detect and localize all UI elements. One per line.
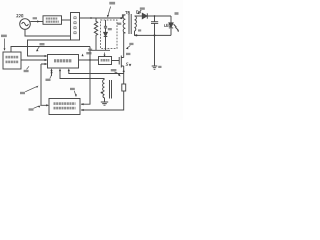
ref 112 leader xyxy=(127,46,130,49)
wire drain to primary xyxy=(124,33,126,58)
output right wire and LED xyxy=(170,16,172,35)
LED xyxy=(169,23,173,28)
wire A2 sampler to PWM xyxy=(21,59,46,61)
snubber label C1 xyxy=(108,28,112,30)
wire vertical gate-sense xyxy=(81,47,90,105)
ref 12 xyxy=(175,12,179,15)
ref 208 xyxy=(20,92,25,94)
ref 206 leader xyxy=(27,66,30,69)
secondary label smudge xyxy=(138,29,141,31)
resistor R1 xyxy=(94,18,97,50)
detector box xyxy=(49,99,80,115)
wire A3 detector loop to PWM xyxy=(41,64,48,105)
wire secondary top to D4 xyxy=(135,15,143,17)
label TB xyxy=(125,11,129,14)
ref 214 leader xyxy=(74,91,76,96)
ref 210 leader xyxy=(34,106,40,108)
bridge rectifier BR xyxy=(71,13,80,41)
rectifier-filter box U1 xyxy=(43,16,62,24)
label LED xyxy=(165,24,171,26)
polarity dot aux xyxy=(101,92,103,94)
ref 120 xyxy=(109,2,115,5)
label 220 xyxy=(17,15,23,17)
ref 220b xyxy=(111,69,117,71)
diode D1 in snubber xyxy=(104,20,107,50)
snubber corner label xyxy=(88,49,92,51)
top rail wire xyxy=(80,15,126,18)
ref 116 xyxy=(140,7,145,9)
sampler box xyxy=(3,52,21,69)
label D4 xyxy=(136,11,140,14)
ref 206 xyxy=(24,70,29,72)
ref 118 xyxy=(117,23,121,25)
wire A1 rectifier to PWM xyxy=(28,40,71,56)
box U1 text xyxy=(46,18,48,20)
resistor Rs xyxy=(122,84,126,91)
output bottom wire xyxy=(135,31,172,35)
wire P2 aux sense to PWM xyxy=(60,70,105,79)
ref 204 xyxy=(40,43,45,45)
text smudges (unreadable small print) xyxy=(1,2,179,111)
ref 210 xyxy=(29,108,34,110)
secondary ground xyxy=(152,35,158,69)
wire P3 source sense to PWM xyxy=(69,70,124,74)
driver text xyxy=(101,59,103,62)
AC source V xyxy=(20,19,31,30)
diode D4 xyxy=(142,13,147,18)
wire filter to bridge xyxy=(62,19,71,21)
ref 104 xyxy=(33,17,37,19)
wire left-box top feedback xyxy=(11,47,90,52)
ref 214 xyxy=(70,88,75,90)
ref 212 leader xyxy=(50,72,52,78)
detector text xyxy=(54,102,56,105)
wire driver to gate xyxy=(112,60,120,62)
transformer secondary winding xyxy=(135,16,137,31)
sampler text xyxy=(6,56,8,59)
ground xyxy=(101,98,108,106)
gnd label smudge xyxy=(158,66,161,68)
wire AC to filter box xyxy=(30,21,43,23)
ref 202 leader xyxy=(4,39,6,49)
arrowheads xyxy=(4,12,140,111)
snubber dashed box xyxy=(101,20,118,49)
wire P1 stub xyxy=(51,70,53,76)
ref 116 leader xyxy=(138,10,141,13)
transformer TB primary winding xyxy=(123,15,125,33)
driver top leader xyxy=(104,53,106,56)
PWM text xyxy=(54,59,56,62)
junction dots xyxy=(89,15,155,93)
ref 120 leader xyxy=(108,7,111,16)
label Sw xyxy=(126,63,131,66)
capacitor C2 xyxy=(151,16,158,35)
aux core xyxy=(110,80,112,99)
transformer core xyxy=(129,14,131,34)
ref 204 leader xyxy=(37,47,40,51)
aux winding xyxy=(103,80,105,98)
wire Rs to detector xyxy=(81,91,124,110)
output top wire xyxy=(147,15,171,17)
wire source to Rs xyxy=(123,66,125,84)
bridge diode marks xyxy=(74,17,76,34)
wire AC bottom to rectifier xyxy=(25,29,71,36)
ref 216 xyxy=(86,52,91,54)
ref 202 xyxy=(1,35,7,38)
ref 112 xyxy=(129,43,133,45)
transistor Sw xyxy=(119,56,124,68)
driver box xyxy=(99,57,112,65)
ref 114 xyxy=(126,53,130,55)
ref 208 leader xyxy=(25,86,37,92)
ref 212 xyxy=(46,79,51,81)
ref 220 leader xyxy=(115,72,120,75)
snubber bottom rail wire xyxy=(90,49,110,51)
PWM controller box xyxy=(48,55,79,69)
PWM output gate wire xyxy=(79,59,99,61)
